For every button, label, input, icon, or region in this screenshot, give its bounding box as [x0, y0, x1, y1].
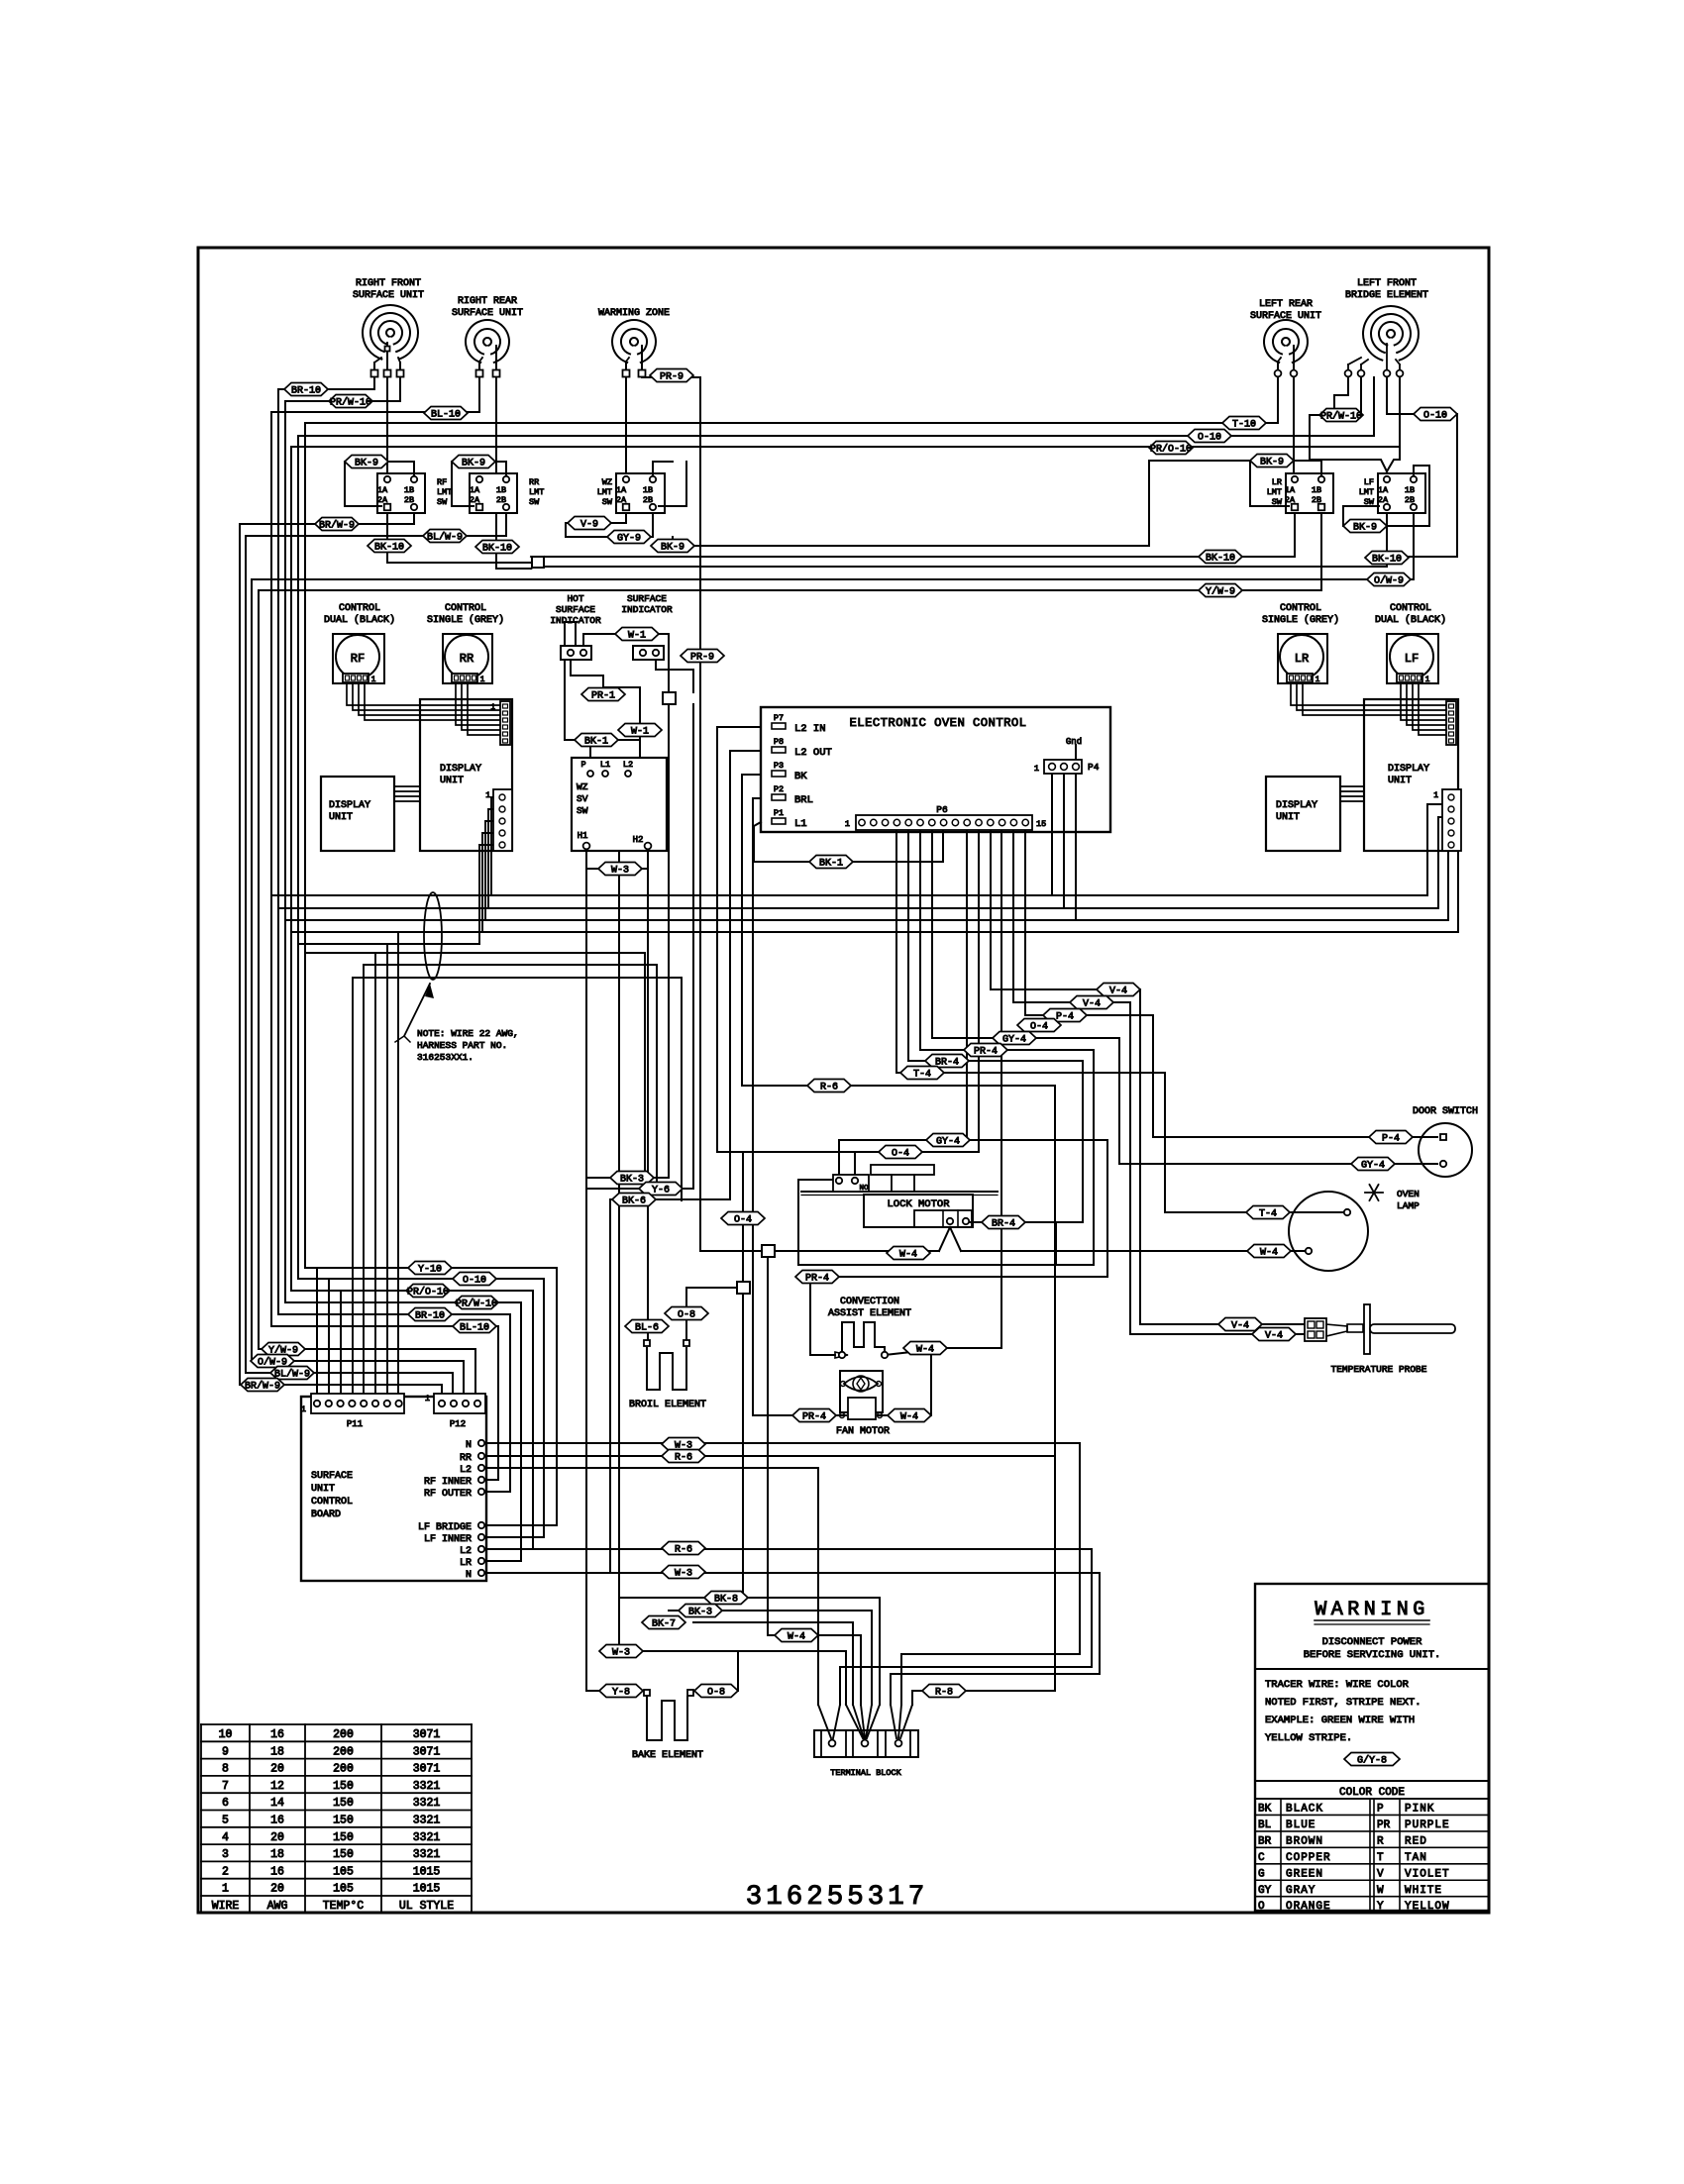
- svg-text:PR-9: PR-9: [690, 652, 714, 663]
- svg-text:150: 150: [333, 1797, 354, 1810]
- wire left display connector stubs: [491, 797, 500, 895]
- svg-text:10: 10: [219, 1728, 233, 1741]
- wire switch loop LR: [1294, 461, 1321, 475]
- svg-text:Y-6: Y-6: [652, 1185, 670, 1196]
- warning box: [1255, 1584, 1489, 1911]
- wire switch loop LF: [1387, 466, 1429, 526]
- svg-text:14: 14: [270, 1797, 284, 1810]
- svg-text:SURFACE: SURFACE: [627, 593, 667, 604]
- svg-text:BR-4: BR-4: [992, 1218, 1015, 1229]
- wire label Y-6: [639, 1183, 683, 1196]
- wire label W-1: [615, 628, 659, 642]
- wire label V-4: [1070, 996, 1113, 1010]
- svg-text:GY-4: GY-4: [1002, 1034, 1026, 1045]
- svg-text:NOTED FIRST, STRIPE NEXT.: NOTED FIRST, STRIPE NEXT.: [1265, 1697, 1421, 1709]
- svg-text:W-3: W-3: [612, 1647, 630, 1658]
- svg-text:PR-4: PR-4: [805, 1273, 829, 1284]
- wire label V-4: [1097, 984, 1140, 997]
- svg-text:PR/O-10: PR/O-10: [1150, 443, 1192, 455]
- svg-text:1015: 1015: [413, 1883, 441, 1896]
- wire label BR-10: [284, 383, 328, 397]
- wire label W-4: [1247, 1245, 1291, 1259]
- wire BK-1 P1 run: [754, 822, 809, 862]
- svg-text:1: 1: [485, 791, 490, 800]
- svg-text:CONTROL: CONTROL: [1390, 603, 1431, 614]
- wire center verticals from indicators: [668, 704, 670, 1178]
- svg-text:BEFORE SERVICING UNIT.: BEFORE SERVICING UNIT.: [1304, 1649, 1441, 1661]
- wire label BK-7: [642, 1616, 685, 1630]
- wire label V-4: [1252, 1328, 1296, 1342]
- svg-text:2B: 2B: [496, 495, 506, 505]
- svg-text:UNIT: UNIT: [329, 812, 353, 823]
- svg-text:NO: NO: [859, 1185, 869, 1193]
- wire switch bottom drops: [386, 513, 388, 563]
- svg-text:1: 1: [845, 819, 850, 829]
- svg-text:1A: 1A: [616, 485, 627, 495]
- svg-text:P6: P6: [936, 804, 948, 815]
- svg-text:TERMINAL BLOCK: TERMINAL BLOCK: [830, 1768, 901, 1778]
- wire label PR/W-10: [329, 395, 372, 409]
- svg-text:ELECTRONIC OVEN CONTROL: ELECTRONIC OVEN CONTROL: [850, 716, 1027, 730]
- svg-text:LR: LR: [1272, 477, 1282, 487]
- wire label P-4: [1369, 1131, 1413, 1145]
- svg-text:BK-10: BK-10: [482, 543, 512, 554]
- wire bowtie junction: [387, 562, 531, 564]
- svg-text:BL/W-9: BL/W-9: [427, 531, 463, 543]
- svg-text:3071: 3071: [413, 1763, 441, 1776]
- svg-text:W: W: [1377, 1885, 1384, 1897]
- svg-text:2B: 2B: [1405, 495, 1415, 505]
- wire label V-9: [568, 517, 611, 531]
- wire bundle A rows into P12: [240, 1385, 442, 1399]
- wire LF bridge local nets: [1360, 377, 1362, 415]
- wire label BK-3: [610, 1172, 654, 1186]
- wire label PR-9: [650, 369, 693, 383]
- wire label PR-9: [681, 650, 724, 664]
- svg-text:BK-8: BK-8: [714, 1594, 738, 1605]
- svg-text:BK-10: BK-10: [1372, 554, 1402, 565]
- wire label BK-10: [1365, 552, 1409, 566]
- svg-text:O-10: O-10: [463, 1275, 486, 1286]
- wire PR/W-10 row: [285, 400, 400, 402]
- svg-text:G/Y-8: G/Y-8: [1357, 1754, 1387, 1766]
- svg-text:CONTROL: CONTROL: [445, 603, 486, 614]
- svg-text:1B: 1B: [496, 485, 506, 495]
- svg-text:BROWN: BROWN: [1286, 1835, 1323, 1847]
- wire label T-4: [1246, 1206, 1290, 1220]
- coil right front surface unit: [363, 305, 418, 360]
- wire coil to switch 1A drops: [386, 377, 388, 473]
- wire label P-4: [1043, 1009, 1087, 1023]
- wire label BR/W-9: [315, 518, 359, 532]
- wire label PR/O-10: [406, 1285, 450, 1299]
- svg-text:2A: 2A: [1285, 495, 1296, 505]
- svg-text:SW: SW: [1272, 497, 1283, 507]
- svg-text:HOT: HOT: [567, 593, 583, 604]
- wire label BL/W-9: [423, 530, 467, 544]
- wire label GY-9: [607, 531, 651, 545]
- wire label R-6: [662, 1542, 705, 1556]
- svg-text:P-4: P-4: [1056, 1011, 1074, 1022]
- svg-text:18: 18: [270, 1848, 284, 1861]
- wire ribbon right: [1340, 785, 1364, 787]
- wire label O/W-9: [1367, 573, 1411, 587]
- svg-text:T-4: T-4: [913, 1069, 931, 1080]
- svg-text:1015: 1015: [413, 1865, 441, 1878]
- svg-text:BK-6: BK-6: [622, 1196, 646, 1206]
- svg-text:OVEN: OVEN: [1397, 1189, 1420, 1199]
- wire label W-3: [599, 1645, 643, 1659]
- wire staircase rows to right components: [991, 989, 1305, 1324]
- svg-text:LR: LR: [460, 1558, 472, 1569]
- svg-text:L2 IN: L2 IN: [794, 723, 826, 735]
- svg-text:H2: H2: [633, 835, 644, 845]
- wire SUCB N RR L2 rows to right: [487, 1443, 1080, 1705]
- svg-text:WARMING ZONE: WARMING ZONE: [598, 308, 670, 319]
- svg-text:SW: SW: [1364, 497, 1375, 507]
- svg-text:BLUE: BLUE: [1286, 1820, 1316, 1831]
- wire left bundle-B verticals: [277, 389, 279, 1314]
- wire switch loop RF: [388, 462, 414, 475]
- svg-text:4: 4: [222, 1831, 229, 1844]
- svg-text:LOCK MOTOR: LOCK MOTOR: [887, 1198, 950, 1210]
- svg-text:SURFACE UNIT: SURFACE UNIT: [1250, 311, 1321, 322]
- wire Y-8 bake feed: [586, 1571, 644, 1691]
- svg-text:L2: L2: [623, 760, 633, 770]
- svg-text:6: 6: [222, 1797, 229, 1810]
- svg-text:O-4: O-4: [892, 1148, 909, 1159]
- wire BR/W-9 row: [240, 523, 414, 525]
- svg-text:RR: RR: [460, 652, 474, 666]
- svg-text:BK: BK: [794, 771, 807, 782]
- svg-text:1: 1: [222, 1883, 229, 1896]
- display unit left big: [420, 699, 512, 851]
- svg-text:W-4: W-4: [1260, 1247, 1278, 1258]
- svg-text:3321: 3321: [413, 1815, 441, 1827]
- wire R-6 upper row: [742, 1085, 1055, 1087]
- wire PR/O-10 long row: [291, 446, 1400, 448]
- svg-text:DISPLAY: DISPLAY: [1388, 764, 1429, 775]
- wire gauge table: [201, 1723, 472, 1725]
- svg-text:LMT: LMT: [437, 487, 452, 497]
- svg-text:BK-9: BK-9: [1353, 522, 1377, 533]
- svg-text:150: 150: [333, 1815, 354, 1827]
- svg-text:COLOR CODE: COLOR CODE: [1339, 1787, 1405, 1799]
- coil warming zone: [612, 320, 656, 363]
- wire EOC pin runs: [717, 726, 761, 728]
- wire left bottom rows 10-series: [305, 1268, 557, 1525]
- svg-text:150: 150: [333, 1780, 354, 1793]
- svg-text:P3: P3: [774, 761, 784, 771]
- svg-text:BK-9: BK-9: [462, 458, 485, 468]
- svg-text:3321: 3321: [413, 1780, 441, 1793]
- svg-text:V-4: V-4: [1083, 998, 1101, 1009]
- svg-text:BK-3: BK-3: [688, 1607, 712, 1617]
- wire label BL-6: [625, 1320, 669, 1334]
- svg-text:AWG: AWG: [267, 1900, 288, 1913]
- wire switch loop WZ: [653, 462, 673, 475]
- svg-text:C: C: [1258, 1852, 1265, 1864]
- svg-text:3: 3: [222, 1848, 229, 1861]
- bake element: [647, 1697, 687, 1740]
- svg-text:O/W-9: O/W-9: [1374, 574, 1404, 586]
- svg-text:LMT: LMT: [529, 487, 544, 497]
- svg-text:LMT: LMT: [1359, 487, 1374, 497]
- wire label GY-4: [1351, 1158, 1395, 1172]
- svg-text:1A: 1A: [1378, 485, 1389, 495]
- svg-text:ORANGE: ORANGE: [1286, 1901, 1331, 1913]
- wire controls-to-display right: [1291, 683, 1447, 705]
- svg-text:LF INNER: LF INNER: [424, 1534, 472, 1545]
- svg-text:105: 105: [333, 1883, 354, 1896]
- lock motor assembly: [801, 1191, 998, 1193]
- svg-text:1B: 1B: [1312, 485, 1321, 495]
- svg-text:9: 9: [222, 1745, 229, 1758]
- wire O-8 bake feed: [690, 1651, 738, 1691]
- svg-text:7: 7: [222, 1780, 229, 1793]
- svg-text:1B: 1B: [404, 485, 414, 495]
- wire label BK-1: [809, 856, 853, 870]
- svg-text:WIRE: WIRE: [212, 1900, 240, 1913]
- wire W-4 long bottom row: [767, 1256, 769, 1635]
- svg-text:T-10: T-10: [1232, 419, 1256, 430]
- wire left bundle-A verticals: [239, 524, 241, 1385]
- wire label GY-4: [993, 1032, 1036, 1046]
- svg-text:SW: SW: [437, 497, 448, 507]
- lock motor top tee: [871, 1165, 934, 1175]
- wire O-4 1163 row: [717, 1151, 979, 1153]
- wire label W-4: [775, 1629, 818, 1643]
- svg-text:BR/W-9: BR/W-9: [245, 1380, 280, 1392]
- wire label BR/W-9: [241, 1379, 284, 1393]
- electronic oven control box: [761, 707, 1110, 832]
- warning G/Y-8 example oval: [1344, 1753, 1400, 1767]
- svg-text:LF: LF: [1405, 652, 1419, 666]
- wire label BK-10: [1199, 551, 1242, 565]
- svg-text:TAN: TAN: [1405, 1852, 1427, 1864]
- svg-text:W-1: W-1: [631, 726, 649, 737]
- svg-text:1: 1: [480, 676, 485, 684]
- wire label V-4: [1218, 1318, 1262, 1332]
- wire label BK-9: [651, 540, 694, 554]
- WZ SV SW box: [572, 758, 667, 851]
- svg-text:Y/W-9: Y/W-9: [1206, 585, 1235, 597]
- wire label PR/O-10: [1149, 442, 1193, 456]
- svg-text:BK: BK: [1258, 1804, 1272, 1816]
- wire label R-8: [922, 1685, 966, 1699]
- svg-text:200: 200: [333, 1763, 354, 1776]
- wire label PR-4: [964, 1044, 1007, 1058]
- svg-text:LMT: LMT: [1267, 487, 1282, 497]
- svg-text:UL STYLE: UL STYLE: [399, 1900, 454, 1913]
- temperature probe: [1305, 1318, 1326, 1341]
- svg-text:200: 200: [333, 1728, 354, 1741]
- wire label GY-4: [926, 1134, 970, 1148]
- wire H1 H2 drops: [585, 851, 587, 1573]
- svg-text:L1: L1: [794, 818, 807, 830]
- svg-text:PR-4: PR-4: [974, 1046, 998, 1057]
- svg-text:O-4: O-4: [734, 1214, 752, 1225]
- svg-text:8: 8: [222, 1763, 229, 1776]
- svg-text:3321: 3321: [413, 1848, 441, 1861]
- wire label O-10: [453, 1273, 496, 1287]
- svg-text:R: R: [1377, 1835, 1384, 1847]
- svg-text:BR/W-9: BR/W-9: [319, 519, 355, 531]
- svg-text:LEFT FRONT: LEFT FRONT: [1357, 278, 1417, 289]
- svg-text:TEMPERATURE PROBE: TEMPERATURE PROBE: [1331, 1364, 1427, 1375]
- svg-text:DISCONNECT POWER: DISCONNECT POWER: [1322, 1636, 1423, 1648]
- wire label BK-9: [345, 456, 388, 469]
- wire label BK-9: [452, 456, 495, 469]
- svg-text:SW: SW: [529, 497, 540, 507]
- wire label W-3: [662, 1566, 705, 1580]
- connector P11: [311, 1394, 404, 1413]
- svg-text:WHITE: WHITE: [1405, 1885, 1442, 1897]
- svg-text:P2: P2: [774, 784, 784, 794]
- wire label PR/W-10: [455, 1297, 498, 1310]
- svg-text:BK-1: BK-1: [584, 736, 608, 747]
- wire label BK-6: [612, 1194, 656, 1207]
- wire rows bundle to center verticals: [305, 952, 645, 954]
- svg-text:316255317: 316255317: [746, 1882, 929, 1913]
- svg-text:2A: 2A: [470, 495, 480, 505]
- wire T-10 long row: [305, 422, 1278, 424]
- display unit right big: [1364, 699, 1458, 851]
- svg-text:2B: 2B: [643, 495, 653, 505]
- svg-text:BROIL ELEMENT: BROIL ELEMENT: [629, 1400, 706, 1410]
- terminal block: [814, 1730, 918, 1757]
- svg-text:R-6: R-6: [820, 1082, 838, 1092]
- svg-text:DOOR SWITCH: DOOR SWITCH: [1413, 1106, 1478, 1117]
- svg-text:O-10: O-10: [1198, 432, 1221, 443]
- svg-text:UNIT: UNIT: [1276, 812, 1300, 823]
- svg-text:BR: BR: [1258, 1835, 1272, 1847]
- svg-text:BRIDGE ELEMENT: BRIDGE ELEMENT: [1345, 290, 1428, 301]
- wire W-3 bake row: [619, 1651, 846, 1705]
- svg-text:PR-9: PR-9: [660, 371, 684, 382]
- svg-text:BK-9: BK-9: [355, 458, 378, 468]
- svg-text:R-6: R-6: [675, 1544, 692, 1555]
- svg-text:PR-4: PR-4: [802, 1411, 826, 1422]
- svg-text:HARNESS PART NO.: HARNESS PART NO.: [417, 1040, 507, 1051]
- wire BL/W-9 row: [246, 535, 506, 537]
- svg-text:L2 OUT: L2 OUT: [794, 747, 832, 759]
- svg-text:BR-10: BR-10: [415, 1310, 445, 1321]
- wire PR-9 warming zone: [642, 376, 700, 378]
- svg-text:N: N: [466, 1570, 472, 1581]
- wire label T-10: [1222, 417, 1266, 431]
- switch LR LMT SW: [1286, 473, 1333, 513]
- wire label W-4: [888, 1409, 931, 1423]
- svg-text:15: 15: [1036, 819, 1046, 829]
- svg-text:3321: 3321: [413, 1831, 441, 1844]
- svg-text:DISPLAY: DISPLAY: [329, 800, 370, 811]
- svg-text:150: 150: [333, 1831, 354, 1844]
- svg-text:WZ: WZ: [602, 477, 612, 487]
- svg-text:LMT: LMT: [597, 487, 612, 497]
- svg-text:BL-10: BL-10: [460, 1322, 489, 1333]
- wire label BK-10: [368, 540, 411, 554]
- svg-text:N: N: [466, 1440, 472, 1451]
- svg-text:PURPLE: PURPLE: [1405, 1820, 1450, 1831]
- svg-text:YELLOW STRIPE.: YELLOW STRIPE.: [1265, 1732, 1352, 1744]
- wire V-9 GY-9 rows: [566, 523, 653, 537]
- svg-text:1: 1: [1034, 764, 1039, 774]
- svg-text:BK-3: BK-3: [620, 1174, 644, 1185]
- svg-text:3071: 3071: [413, 1728, 441, 1741]
- wire label W-3: [598, 863, 642, 877]
- surface unit control board: [301, 1397, 486, 1581]
- svg-text:P: P: [580, 760, 585, 770]
- svg-text:SURFACE: SURFACE: [311, 1471, 353, 1482]
- svg-text:CONVECTION: CONVECTION: [840, 1297, 899, 1307]
- svg-text:105: 105: [333, 1865, 354, 1878]
- wire label BK-9: [1250, 455, 1294, 468]
- svg-text:PINK: PINK: [1405, 1804, 1434, 1816]
- svg-text:W-3: W-3: [611, 865, 629, 876]
- wire label O-4: [721, 1212, 765, 1226]
- svg-text:TRACER WIRE: WIRE COLOR: TRACER WIRE: WIRE COLOR: [1265, 1679, 1410, 1691]
- SUCB terminals: [478, 1440, 484, 1446]
- svg-text:1B: 1B: [1405, 485, 1415, 495]
- svg-text:BL/W-9: BL/W-9: [274, 1368, 310, 1380]
- svg-text:16: 16: [270, 1865, 284, 1878]
- wire label T-4: [900, 1067, 944, 1081]
- svg-text:V-9: V-9: [580, 519, 598, 530]
- wire indicator nets: [571, 660, 603, 700]
- wire label W-4: [887, 1247, 930, 1261]
- broil element: [647, 1348, 686, 1390]
- border frame: [198, 248, 1489, 1913]
- svg-text:RF: RF: [437, 477, 447, 487]
- svg-text:P: P: [1377, 1804, 1384, 1816]
- svg-text:20: 20: [270, 1831, 284, 1844]
- wire long rows display-to-display: [271, 894, 1427, 896]
- svg-text:SINGLE (GREY): SINGLE (GREY): [427, 614, 504, 626]
- wire label BL/W-9: [270, 1367, 314, 1381]
- svg-text:BR-10: BR-10: [291, 385, 321, 396]
- coil left front bridge element: [1363, 306, 1419, 361]
- switch LF LMT SW: [1378, 473, 1425, 513]
- svg-text:BL: BL: [1258, 1820, 1271, 1831]
- svg-text:150: 150: [333, 1848, 354, 1861]
- svg-text:V-4: V-4: [1109, 986, 1127, 996]
- wire label O-10: [1414, 408, 1457, 422]
- svg-text:1: 1: [425, 1394, 430, 1404]
- svg-text:EXAMPLE: GREEN WIRE WITH: EXAMPLE: GREEN WIRE WITH: [1265, 1715, 1415, 1726]
- svg-text:P8: P8: [774, 737, 784, 747]
- svg-text:316253XX1.: 316253XX1.: [417, 1052, 474, 1063]
- svg-text:GY-4: GY-4: [1361, 1160, 1385, 1171]
- svg-text:SURFACE UNIT: SURFACE UNIT: [452, 308, 523, 319]
- wire P4 drops: [1051, 774, 1053, 895]
- wire label O-4: [879, 1146, 922, 1160]
- svg-text:PR-1: PR-1: [591, 690, 615, 701]
- svg-text:R-8: R-8: [935, 1687, 953, 1698]
- svg-text:NOTE: WIRE 22 AWG,: NOTE: WIRE 22 AWG,: [417, 1028, 519, 1039]
- svg-text:Y-8: Y-8: [612, 1687, 630, 1698]
- svg-text:W-3: W-3: [675, 1568, 692, 1579]
- svg-text:1B: 1B: [643, 485, 653, 495]
- wire label W-3: [662, 1438, 705, 1452]
- svg-text:BR-4: BR-4: [935, 1057, 959, 1068]
- svg-text:O-4: O-4: [1030, 1021, 1048, 1032]
- svg-text:W-4: W-4: [900, 1411, 918, 1422]
- svg-text:BLACK: BLACK: [1286, 1804, 1323, 1816]
- svg-text:2B: 2B: [404, 495, 414, 505]
- svg-text:RF OUTER: RF OUTER: [424, 1489, 472, 1500]
- svg-text:P-4: P-4: [1382, 1133, 1400, 1144]
